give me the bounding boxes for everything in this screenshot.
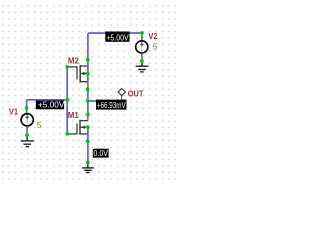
junction dot M2 gate xyxy=(65,65,69,69)
wire V1 to gate bus xyxy=(27,99,68,101)
junction dot M2 source xyxy=(86,87,90,91)
voltage label box OUT +66.93mV xyxy=(96,100,127,110)
wire right bus lower to ground xyxy=(87,127,89,162)
node OUT flag diamond xyxy=(118,89,125,100)
voltage label box V1 +5.00V xyxy=(36,101,65,110)
junction dot V1 top xyxy=(25,106,29,110)
svg-text:M1: M1 xyxy=(68,110,79,120)
junction dot M2 bulk xyxy=(86,72,90,76)
transistor M2 (PMOS) xyxy=(67,65,88,89)
svg-text:V1: V1 xyxy=(9,106,19,116)
wire right bus mid (OUT section) xyxy=(87,89,89,114)
svg-text:+5.00V: +5.00V xyxy=(38,101,65,110)
svg-text:+66.93mV: +66.93mV xyxy=(97,101,126,110)
svg-text:5: 5 xyxy=(37,120,42,130)
wire gate bus vertical xyxy=(66,67,68,134)
junction dot M2 drain xyxy=(86,58,90,62)
svg-text:M2: M2 xyxy=(68,56,79,66)
transistor M1 (NMOS) xyxy=(67,115,88,135)
junction dot M1 bulk xyxy=(86,125,90,129)
M1 bulk arrow head (points left) xyxy=(81,126,85,129)
svg-text:0.0V: 0.0V xyxy=(94,149,109,158)
junction dot V2 bottom xyxy=(140,59,144,63)
junction dot V1 bottom xyxy=(25,133,29,137)
voltage label box V2 +5.00V xyxy=(105,32,129,43)
wire V1 vertical xyxy=(26,100,28,108)
wire right bus upper xyxy=(87,33,89,82)
junction dot M1 drain xyxy=(86,113,90,117)
svg-text:5: 5 xyxy=(153,42,158,52)
junction dot OUT node xyxy=(86,99,90,103)
junction dot M1 source xyxy=(86,139,90,143)
voltage source V1 xyxy=(21,108,33,135)
voltage source V2 xyxy=(136,33,148,61)
junction dot M1 gate xyxy=(65,132,69,136)
wire OUT horizontal xyxy=(88,100,122,102)
ground under V2 xyxy=(136,61,149,72)
junction dot bottom ground xyxy=(86,161,90,165)
M2 bulk arrow head (points right) xyxy=(83,72,87,75)
svg-text:V2: V2 xyxy=(148,31,158,41)
voltage label box ground 0.0V xyxy=(93,149,109,158)
svg-text:+5.00V: +5.00V xyxy=(106,34,129,43)
wire top rail xyxy=(88,32,142,34)
junction dot V2 top xyxy=(140,31,144,35)
svg-text:OUT: OUT xyxy=(128,88,144,98)
junction dot input node xyxy=(66,98,70,102)
ground under V1 xyxy=(21,135,34,147)
grid dots xyxy=(0,0,180,180)
ground bottom (under M1 source) xyxy=(82,162,94,172)
